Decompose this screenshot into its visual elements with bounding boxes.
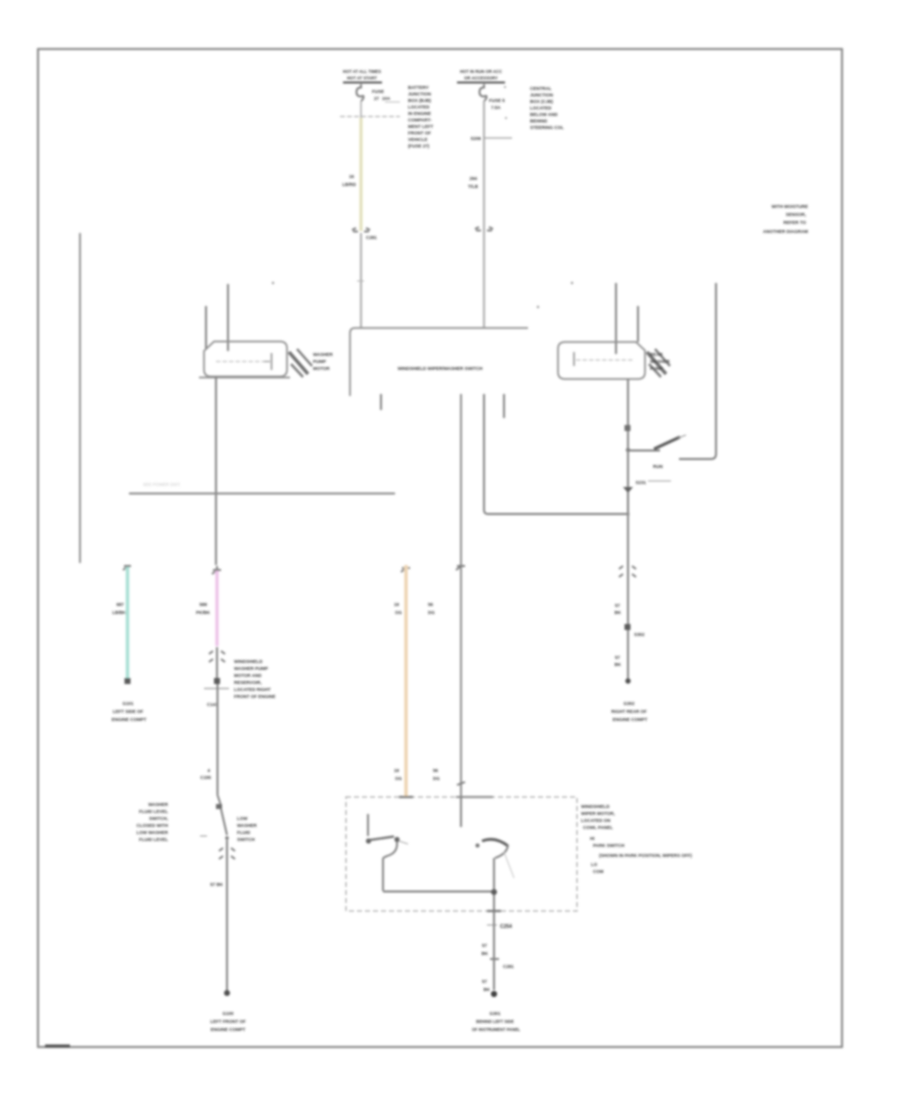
wire into left wiper motor pin B: [227, 284, 229, 351]
wire (left page rule): [79, 233, 81, 563]
park switch pin labels: [590, 836, 692, 874]
fuse F5 (right): [480, 84, 508, 119]
wire from run feed (tall right): [679, 283, 716, 459]
svg-text:PK/BK: PK/BK: [196, 610, 211, 615]
wire to ground G100: [226, 884, 228, 991]
svg-text:FLUID LEVEL: FLUID LEVEL: [139, 809, 168, 814]
wire 57 LB (cyan): [126, 567, 130, 679]
svg-text:WINDSHIELD: WINDSHIELD: [581, 804, 610, 809]
svg-text:HI: HI: [590, 836, 595, 841]
ground G302 label: [611, 701, 647, 722]
svg-text:27: 27: [374, 96, 380, 101]
switch pin stub 4: [503, 394, 505, 418]
svg-text:FUSE 5: FUSE 5: [489, 98, 505, 103]
svg-text:57: 57: [615, 655, 621, 660]
svg-text:C281: C281: [366, 235, 377, 240]
connector ticks on right wire: [619, 566, 636, 569]
svg-text:CENTRAL: CENTRAL: [530, 86, 552, 91]
svg-text:FLUID LEVEL: FLUID LEVEL: [139, 837, 168, 842]
svg-text:56: 56: [428, 602, 434, 607]
svg-text:PUMP: PUMP: [313, 359, 326, 364]
svg-text:294: 294: [469, 176, 477, 181]
wire from left motor to washer pump (down): [215, 377, 217, 565]
svg-text:LOCATED ON: LOCATED ON: [581, 818, 610, 823]
svg-text:WASHER: WASHER: [650, 359, 671, 364]
svg-text:G101: G101: [122, 701, 134, 706]
connector square on wire: [625, 425, 631, 431]
svg-text:REFER TO: REFER TO: [783, 220, 806, 225]
splice dot S300: [214, 678, 220, 684]
wire into right wiper motor pin B: [637, 306, 639, 342]
splice S206: [470, 136, 512, 141]
svg-text:16: 16: [349, 174, 355, 179]
connector label box C155: [200, 768, 211, 780]
connector tick on center wire above motor: [457, 782, 465, 785]
dot (pin ref): [272, 282, 274, 284]
wire down to fluid level switch: [217, 684, 219, 795]
wire down from blob to junction: [627, 492, 629, 563]
wiper motor label (right of box): [581, 804, 615, 830]
svg-text:S302: S302: [634, 632, 645, 637]
svg-text:HOT AT START: HOT AT START: [347, 76, 377, 81]
wire label 19 OG bottom: [394, 768, 403, 781]
node HOT IN RUN label (fuse F5 feed): [457, 69, 505, 83]
svg-text:SWITCH,: SWITCH,: [149, 816, 168, 821]
svg-text:FLUID: FLUID: [237, 830, 251, 835]
svg-text:HOT AT ALL TIMES: HOT AT ALL TIMES: [343, 69, 381, 74]
svg-text:LOW: LOW: [237, 816, 248, 821]
svg-text:S206: S206: [470, 136, 481, 141]
svg-text:ENGINE COMPT: ENGINE COMPT: [211, 1027, 246, 1032]
svg-text:G100: G100: [222, 1011, 234, 1016]
run contact (right): [461, 797, 514, 911]
switch pin stub 1: [380, 394, 382, 410]
dark entry marks on top edge: [399, 796, 493, 798]
svg-text:BOX (BJB): BOX (BJB): [408, 98, 432, 103]
node HOT AT ALL TIMES label (fuse F27 feed): [343, 69, 400, 102]
wire label 57 BK bottom: [482, 943, 489, 956]
ground G101: [112, 701, 147, 722]
connector tick on orange wire top: [401, 568, 410, 572]
svg-text:T/LB: T/LB: [468, 184, 479, 189]
wire label 57 BK lower: [615, 655, 622, 667]
svg-text:MOTOR: MOTOR: [313, 366, 330, 371]
connector hatch on right motor: [647, 349, 670, 377]
svg-text:OG: OG: [395, 610, 403, 615]
svg-text:WASHER PUMP: WASHER PUMP: [234, 666, 268, 671]
fuse F5 value label: [489, 98, 505, 110]
junction dot park/run: [491, 889, 497, 895]
svg-text:RIGHT REAR OF: RIGHT REAR OF: [611, 709, 647, 714]
right wiper motor M2 (rear washer pump): [558, 342, 645, 379]
left wiper motor M1 (front washer pump): [199, 342, 290, 378]
svg-text:57: 57: [482, 943, 488, 948]
wire from fuse F5: [483, 101, 485, 328]
svg-text:COWL PANEL: COWL PANEL: [583, 825, 613, 830]
ground dot G301: [491, 991, 497, 997]
wire 16 LB/RD (pale yellow) from fuse F27: [360, 101, 362, 231]
ground splice dot (cyan wire): [125, 678, 131, 684]
wire down right to splice: [627, 563, 629, 679]
svg-text:RUN: RUN: [653, 464, 663, 469]
wire label 19 OG top: [394, 602, 403, 615]
svg-text:WIPER MOTOR,: WIPER MOTOR,: [581, 811, 615, 816]
splice label S231: [635, 480, 671, 485]
svg-text:C254: C254: [500, 924, 512, 930]
wire pin 2 to wiper motor (long center): [460, 394, 462, 797]
connector tick: [490, 958, 499, 960]
connector under box C254: [487, 924, 512, 930]
svg-text:LO: LO: [591, 862, 598, 867]
wire label 589 PK/BK: [196, 602, 211, 615]
svg-text:DG: DG: [433, 776, 440, 781]
switch blade (ignition-controlled contact): [628, 435, 686, 451]
ground dot G302: [625, 678, 630, 683]
svg-text:PARK SWITCH: PARK SWITCH: [593, 843, 624, 848]
connector ticks on cyan wire top: [123, 566, 131, 570]
svg-text:G301: G301: [489, 1011, 501, 1016]
svg-text:57 BK: 57 BK: [210, 882, 224, 887]
central junction box note: [530, 86, 564, 130]
svg-text:CLOSED WITH: CLOSED WITH: [137, 823, 169, 828]
ground G301 label: [472, 1011, 521, 1032]
left motor label: [313, 352, 334, 371]
svg-text:STEERING COL: STEERING COL: [530, 125, 564, 130]
ground G100 label: [210, 1011, 246, 1032]
svg-text:(FUSE 27): (FUSE 27): [408, 144, 430, 149]
svg-text:DG: DG: [428, 610, 435, 615]
svg-text:FUSE: FUSE: [372, 89, 384, 94]
svg-text:WASHER: WASHER: [237, 823, 258, 828]
svg-text:SWITCH: SWITCH: [237, 837, 255, 842]
svg-text:BELOW AND: BELOW AND: [530, 112, 558, 117]
svg-text:BEHIND: BEHIND: [530, 119, 548, 124]
wire into right wiper motor pin A: [615, 283, 617, 354]
svg-text:589: 589: [199, 602, 207, 607]
fluid level switch right note: [237, 816, 258, 842]
connector C281b on wire: [475, 227, 493, 231]
fuse box boundary (dashed): [340, 116, 400, 118]
svg-text:IN ENGINE: IN ENGINE: [408, 111, 431, 116]
svg-text:OR ACCESSORY: OR ACCESSORY: [464, 76, 498, 81]
exit mark on bottom edge: [487, 910, 501, 912]
page number mark on bottom border: [45, 1045, 70, 1048]
svg-text:LOCATED RIGHT: LOCATED RIGHT: [234, 687, 271, 692]
svg-text:LEFT SIDE OF: LEFT SIDE OF: [113, 709, 144, 714]
ground dot G100: [224, 990, 230, 996]
svg-text:FRONT OF: FRONT OF: [408, 131, 431, 136]
svg-text:WASHER: WASHER: [148, 802, 169, 807]
right motor label: [650, 352, 671, 371]
wire 589 PK/BK (pink): [216, 566, 218, 646]
svg-text:ANOTHER DIAGRAM: ANOTHER DIAGRAM: [763, 229, 808, 234]
wire label 16 LB/RD: [342, 174, 356, 187]
connector tick on pink wire top: [212, 570, 221, 574]
wire from wiper motor to ground: [493, 911, 495, 990]
svg-text:WITH MOISTURE: WITH MOISTURE: [772, 204, 809, 209]
svg-text:BK: BK: [484, 987, 491, 992]
svg-text:JUNCTION: JUNCTION: [530, 93, 553, 98]
svg-text:OG: OG: [395, 776, 403, 781]
washer fluid level switch SW2: [200, 795, 229, 840]
svg-text:57: 57: [482, 979, 488, 984]
wire from right motor down: [627, 379, 629, 516]
svg-text:LEFT FRONT OF: LEFT FRONT OF: [210, 1019, 246, 1024]
svg-text:LB/BK: LB/BK: [112, 610, 126, 615]
battery junction box note: [408, 85, 433, 149]
junction to run/acc feed: [626, 448, 630, 452]
svg-text:ENGINE COMPT: ENGINE COMPT: [112, 717, 147, 722]
wire (long horizontal crossover): [129, 493, 395, 495]
svg-text:PUMP: PUMP: [650, 366, 663, 371]
svg-text:RESERVOIR,: RESERVOIR,: [234, 680, 262, 685]
svg-text:MENT LEFT: MENT LEFT: [408, 124, 433, 129]
svg-text:C281: C281: [503, 964, 514, 969]
svg-text:19: 19: [394, 768, 400, 773]
svg-text:HOT IN RUN OR ACC: HOT IN RUN OR ACC: [460, 69, 502, 74]
connector C281 on yellow wire: [352, 228, 377, 240]
svg-text:BEHIND LEFT SIDE: BEHIND LEFT SIDE: [476, 1019, 514, 1024]
svg-text:BK: BK: [615, 610, 622, 615]
svg-text:WINDSHIELD WIPER/WASHER SWITCH: WINDSHIELD WIPER/WASHER SWITCH: [398, 366, 483, 371]
svg-text:S231: S231: [635, 480, 646, 485]
svg-text:LB/RD: LB/RD: [342, 182, 356, 187]
wire label 56 DG top: [428, 602, 435, 615]
inline connector C143 on pink wire: [209, 647, 225, 679]
svg-text:19: 19: [394, 602, 400, 607]
svg-text:ENGINE COMPT: ENGINE COMPT: [613, 717, 648, 722]
connector tick on center wire: [456, 566, 465, 570]
svg-text:BK: BK: [482, 951, 489, 956]
svg-text:C155: C155: [200, 775, 211, 780]
fluid level switch left note: [137, 802, 169, 842]
connector hatch on left motor: [289, 349, 312, 377]
svg-text:WASHER: WASHER: [313, 352, 334, 357]
splice S302: [625, 624, 631, 630]
junction of pin3 branch: [626, 512, 629, 515]
wire into left wiper motor pin A: [205, 306, 207, 349]
wire 19 OG (pale orange): [404, 565, 408, 797]
svg-text:(SHOWN IN PARK POSITION, WIPER: (SHOWN IN PARK POSITION, WIPERS OFF): [599, 853, 692, 858]
wire label lower: [482, 979, 491, 992]
branch tick: [204, 688, 229, 690]
wire pin 3 to relay junction: [484, 394, 627, 514]
svg-text:MOTOR AND: MOTOR AND: [234, 673, 262, 678]
svg-text:LOCATED: LOCATED: [530, 106, 552, 111]
svg-text:56: 56: [433, 768, 439, 773]
park circuit link wire: [383, 891, 494, 893]
svg-text:BK: BK: [615, 662, 622, 667]
svg-text:7.5A: 7.5A: [491, 105, 501, 110]
wiper motor box (dashed): [346, 797, 577, 911]
svg-text:FRONT OF ENGINE: FRONT OF ENGINE: [234, 694, 276, 699]
svg-text:SENSOR,: SENSOR,: [786, 212, 806, 217]
svg-text:WINDSHIELD: WINDSHIELD: [234, 659, 263, 664]
svg-text:687: 687: [116, 602, 124, 607]
svg-text:10A: 10A: [382, 96, 391, 101]
svg-text:COM: COM: [593, 869, 604, 874]
note: moisture sensor reference (top right): [763, 204, 808, 234]
connector blob on wire: [623, 487, 633, 493]
fuse F27 (left): [357, 84, 364, 101]
park switch contact (left): [366, 814, 408, 891]
svg-text:VEHICLE: VEHICLE: [408, 137, 428, 142]
wire label 294 T/LB: [468, 176, 479, 189]
svg-text:BATTERY: BATTERY: [408, 85, 429, 90]
fuse F27 value label: [372, 89, 391, 101]
svg-text:BOX (CJB): BOX (CJB): [530, 99, 554, 104]
svg-text:LOCATED: LOCATED: [408, 105, 430, 110]
svg-text:COMPART-: COMPART-: [408, 118, 432, 123]
washer pump note: [234, 659, 276, 699]
svg-text:57: 57: [615, 603, 621, 608]
svg-text:OF INSTRUMENT PANEL: OF INSTRUMENT PANEL: [472, 1027, 521, 1032]
connector ticks below switch: [219, 840, 235, 884]
wiper switch SW1 box (top center): [350, 328, 528, 396]
dot marks near right motor: [571, 282, 573, 284]
svg-text:G302: G302: [623, 701, 635, 706]
wire label 56 DG bottom: [433, 768, 440, 781]
wire label 57 BK right: [615, 603, 622, 615]
svg-text:REAR: REAR: [650, 352, 664, 357]
svg-text:JUNCTION: JUNCTION: [408, 92, 431, 97]
wire label 57 LB: [112, 602, 126, 615]
svg-text:LOW WASHER: LOW WASHER: [137, 830, 169, 835]
wire segment from C281 down to wiper switch: [357, 233, 364, 328]
svg-text:SEE POWER DIST.: SEE POWER DIST.: [143, 482, 181, 487]
